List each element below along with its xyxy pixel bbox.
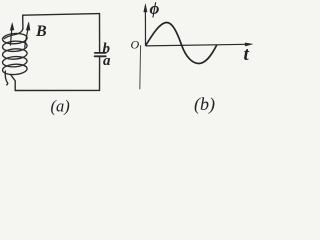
x-axis t: [146, 44, 248, 46]
inductor coil L: [2, 28, 27, 85]
capacitor plate b: [95, 52, 106, 54]
coil end tail: [5, 71, 8, 86]
svg-text:(b): (b): [194, 94, 215, 115]
x-axis arrowhead: [245, 43, 253, 46]
svg-text:ϕ: ϕ: [150, 0, 160, 18]
svg-text:t: t: [244, 44, 250, 65]
y-axis phi: [144, 11, 146, 46]
wire top: [23, 14, 100, 16]
flux arrow left: [10, 23, 14, 45]
wire bottom: [15, 89, 99, 91]
svg-text:(a): (a): [51, 97, 70, 116]
capacitor plate a: [95, 55, 106, 57]
svg-text:a: a: [103, 53, 111, 69]
y-axis arrowhead: [144, 4, 147, 12]
flux sine curve: [146, 22, 217, 63]
wire left-top vertical: [22, 15, 24, 29]
wire right upper: [99, 14, 101, 53]
svg-text:O: O: [131, 38, 140, 52]
wire coil-exit: [11, 75, 16, 91]
flux arrow right: [25, 22, 30, 47]
wire right lower: [99, 56, 101, 90]
stray vertical mark: [139, 45, 142, 89]
svg-text:B: B: [35, 23, 47, 40]
